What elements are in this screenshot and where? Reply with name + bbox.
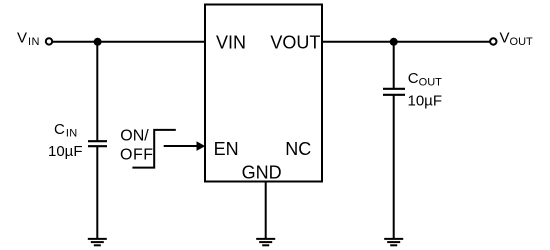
step waveform symbol (132, 130, 175, 168)
wire IC VOUT pin to VOUT terminal (322, 41, 490, 43)
node VOUT terminal (490, 38, 496, 44)
ground GND pin (256, 239, 275, 245)
wire junction down to CIN (96, 42, 98, 142)
junction input node (94, 38, 102, 46)
wire CIN to ground (96, 146, 98, 239)
svg-text:OFF: OFF (120, 146, 154, 163)
wire GND pin to ground (265, 183, 267, 240)
svg-text:ON/: ON/ (120, 128, 149, 145)
svg-text:NC: NC (285, 139, 311, 159)
svg-text:VIN: VIN (216, 33, 246, 53)
svg-text:VOUT: VOUT (270, 33, 320, 53)
node VIN terminal (46, 38, 52, 44)
wire arrow into EN pin (164, 141, 206, 151)
wire VIN terminal to IC VIN pin (52, 41, 205, 43)
ground output (384, 239, 403, 245)
capacitor C2 COUT (383, 89, 405, 95)
svg-text:EN: EN (214, 139, 239, 159)
wire junction down to COUT (393, 42, 395, 89)
op-amp U1 regulator body (205, 5, 322, 182)
svg-text:10µF: 10µF (408, 93, 443, 110)
junction output node (390, 38, 398, 46)
svg-text:10µF: 10µF (48, 143, 83, 160)
ground input (88, 239, 107, 245)
svg-text:GND: GND (242, 163, 282, 183)
wire COUT to ground (393, 95, 395, 239)
capacitor C1 CIN (88, 141, 107, 146)
